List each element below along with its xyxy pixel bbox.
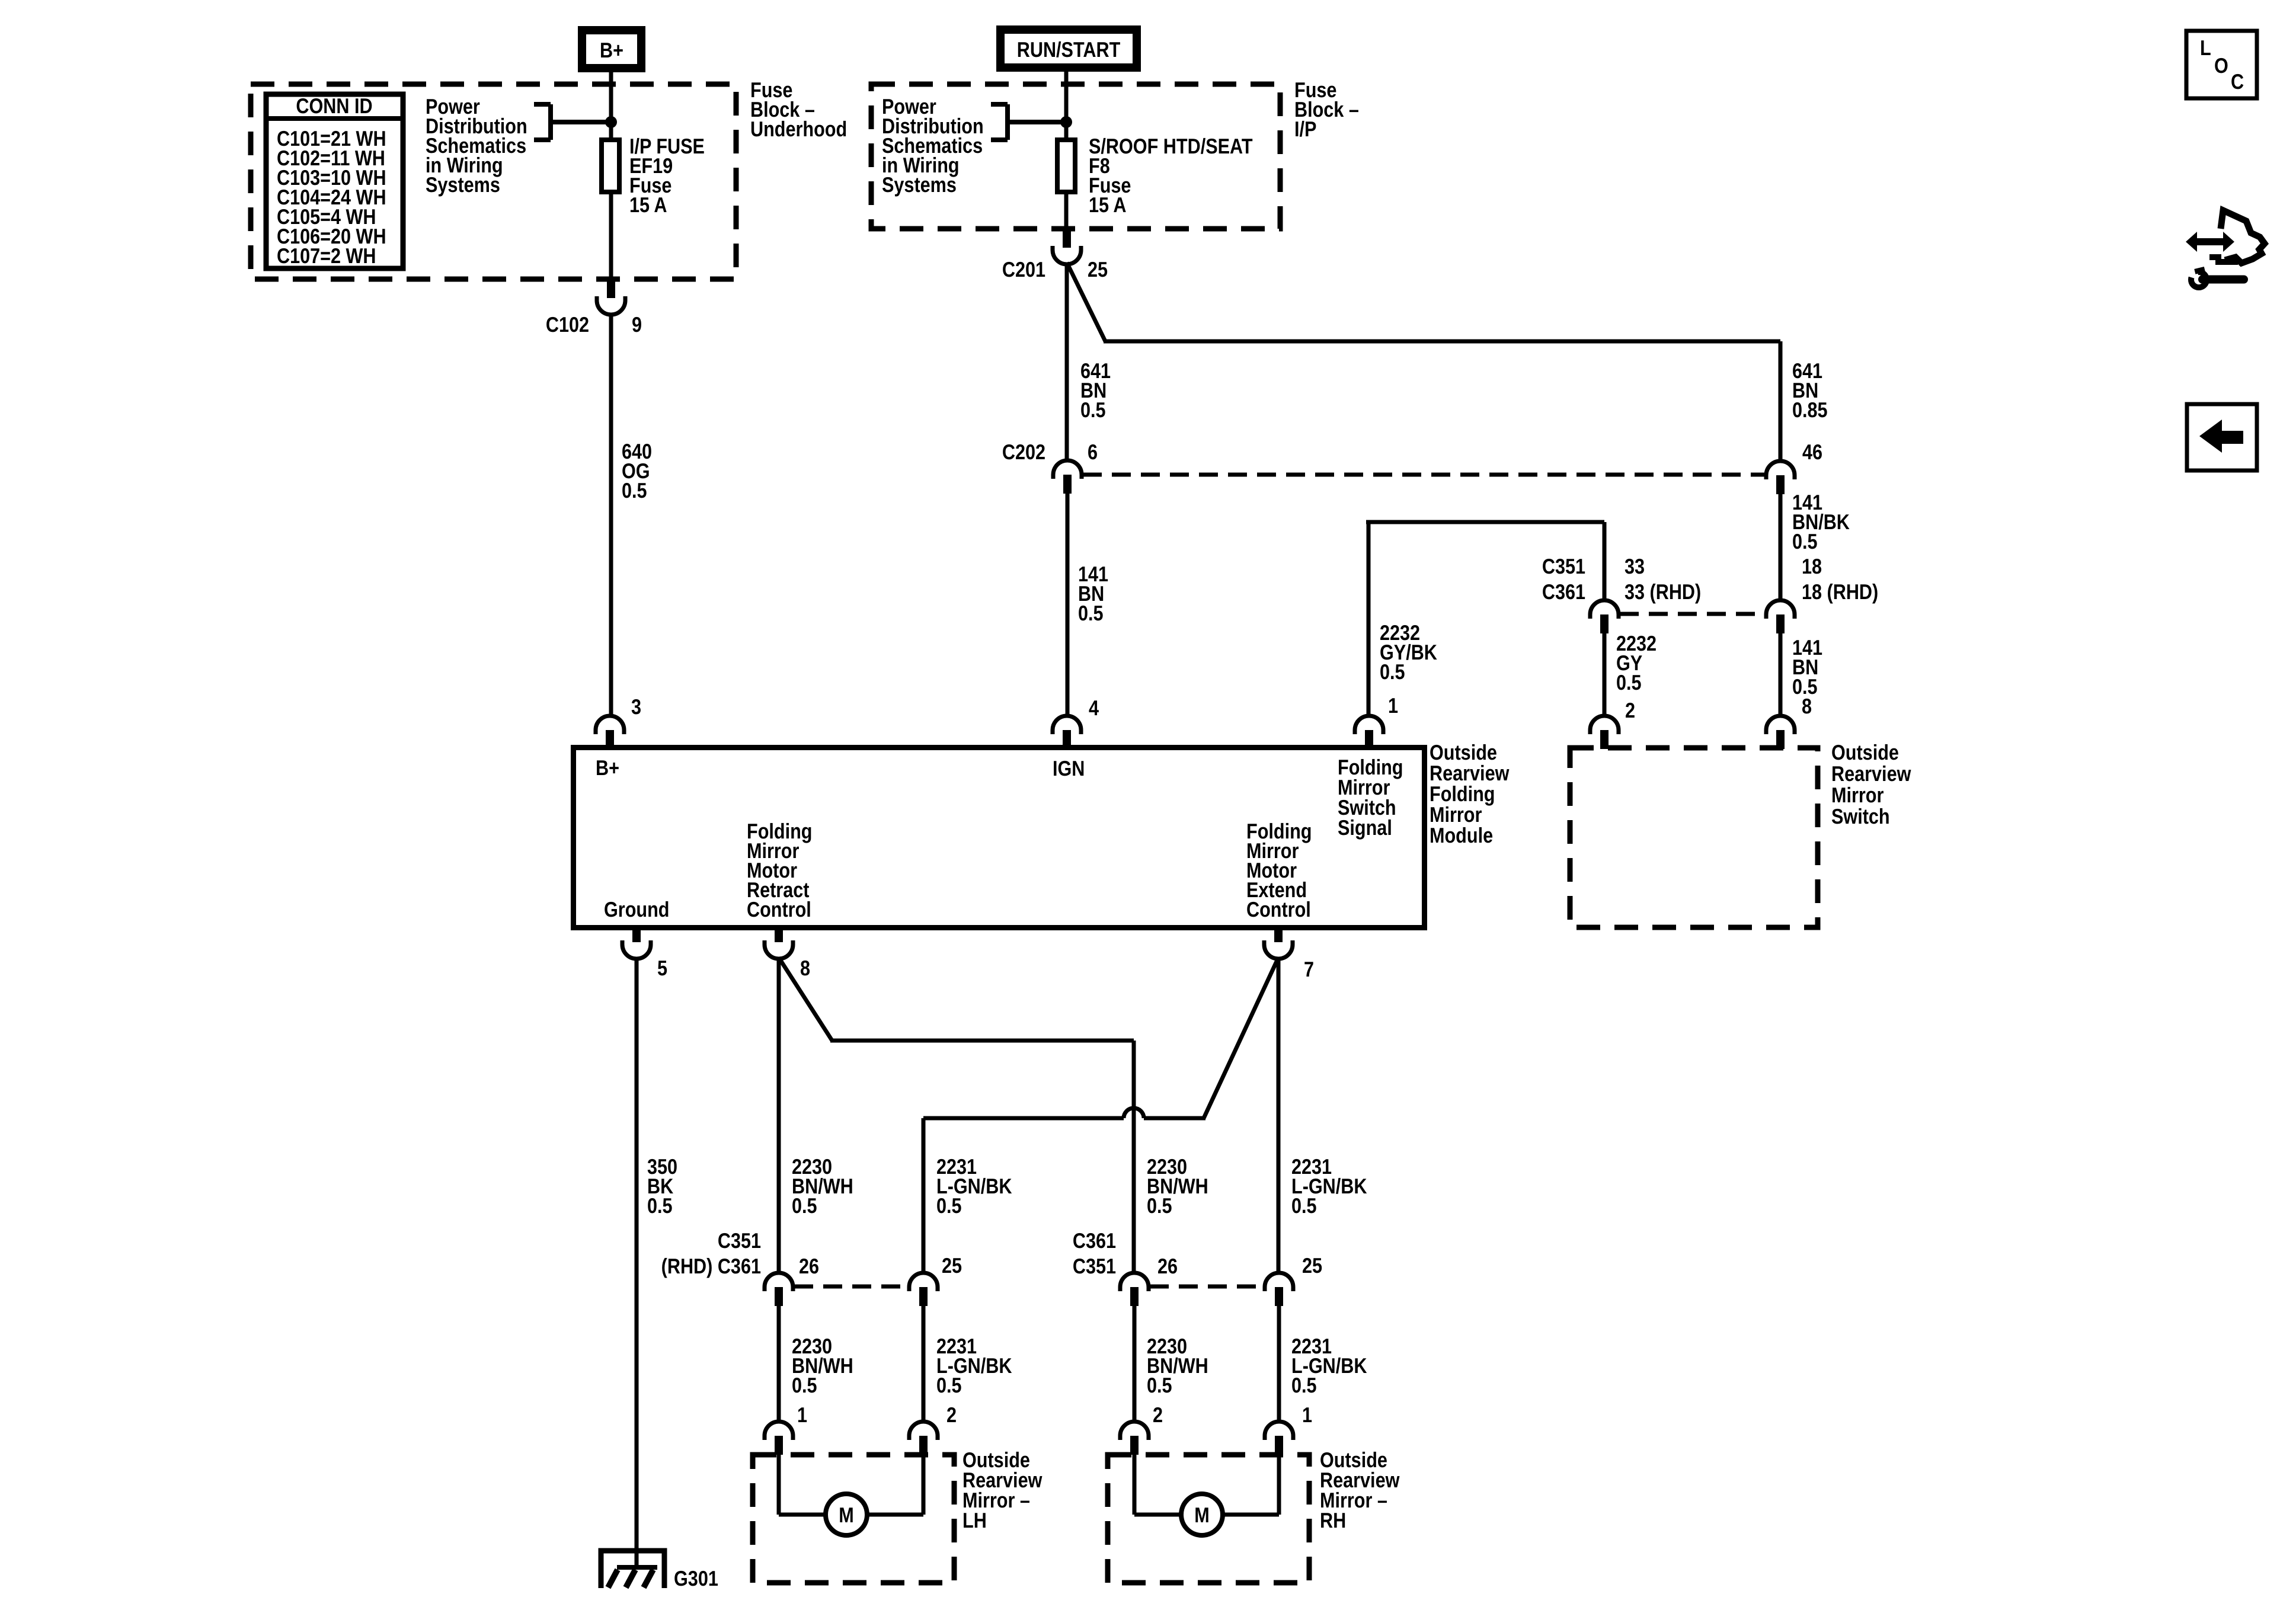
svg-text:C107=2 WH: C107=2 WH [277, 244, 376, 268]
svg-text:B+: B+ [596, 756, 619, 780]
svg-text:0.5: 0.5 [792, 1373, 817, 1397]
svg-text:0.5: 0.5 [1291, 1193, 1317, 1218]
svg-text:M: M [1194, 1503, 1210, 1527]
svg-text:Switch: Switch [1831, 804, 1890, 828]
svg-text:5: 5 [657, 956, 667, 980]
svg-text:18: 18 [1802, 554, 1822, 578]
svg-text:25: 25 [1302, 1253, 1322, 1278]
svg-text:15 A: 15 A [1089, 193, 1127, 217]
svg-text:18 (RHD): 18 (RHD) [1802, 580, 1878, 604]
svg-text:CONN ID: CONN ID [296, 94, 372, 118]
svg-text:Systems: Systems [426, 172, 500, 197]
svg-text:25: 25 [1088, 257, 1108, 281]
svg-text:2: 2 [946, 1403, 957, 1427]
svg-text:1: 1 [1388, 693, 1398, 718]
svg-text:M: M [839, 1503, 854, 1527]
svg-text:33 (RHD): 33 (RHD) [1625, 580, 1701, 604]
svg-text:Underhood: Underhood [750, 117, 847, 141]
svg-text:(RHD) C361: (RHD) C361 [661, 1254, 761, 1278]
svg-text:C102: C102 [546, 312, 589, 337]
svg-text:33: 33 [1625, 554, 1645, 578]
svg-text:C202: C202 [1002, 440, 1045, 464]
svg-text:1: 1 [1302, 1403, 1312, 1427]
svg-text:C351: C351 [718, 1228, 761, 1253]
svg-text:0.5: 0.5 [1792, 529, 1818, 553]
svg-text:C201: C201 [1002, 257, 1045, 281]
svg-text:Outside: Outside [1831, 740, 1899, 764]
svg-text:Mirror: Mirror [1831, 783, 1884, 807]
svg-text:15 A: 15 A [629, 193, 667, 217]
svg-text:0.5: 0.5 [792, 1193, 817, 1218]
svg-text:6: 6 [1088, 440, 1098, 464]
svg-text:I/P: I/P [1294, 117, 1316, 141]
svg-text:0.5: 0.5 [1616, 670, 1642, 694]
svg-text:0.5: 0.5 [1380, 660, 1405, 684]
svg-text:C351: C351 [1542, 554, 1585, 578]
svg-text:25: 25 [942, 1253, 962, 1278]
svg-text:O: O [2214, 53, 2228, 78]
svg-text:4: 4 [1089, 696, 1099, 720]
svg-text:Control: Control [1246, 897, 1311, 921]
svg-text:0.5: 0.5 [936, 1193, 962, 1218]
svg-text:0.5: 0.5 [1080, 398, 1106, 422]
svg-text:0.5: 0.5 [622, 478, 647, 502]
svg-text:8: 8 [800, 956, 810, 980]
svg-text:C: C [2231, 69, 2244, 94]
svg-text:C361: C361 [1073, 1228, 1116, 1253]
svg-text:1: 1 [797, 1403, 807, 1427]
svg-text:0.5: 0.5 [1147, 1193, 1172, 1218]
svg-text:0.5: 0.5 [936, 1373, 962, 1397]
svg-text:Control: Control [747, 897, 811, 921]
svg-text:B+: B+ [600, 38, 623, 62]
svg-text:Ground: Ground [604, 897, 669, 921]
svg-text:LH: LH [962, 1508, 987, 1532]
svg-text:RH: RH [1320, 1508, 1346, 1532]
svg-text:0.5: 0.5 [1291, 1373, 1317, 1397]
svg-text:9: 9 [632, 312, 642, 337]
svg-text:0.85: 0.85 [1792, 398, 1828, 422]
svg-text:S/ROOF HTD/SEAT: S/ROOF HTD/SEAT [1089, 134, 1253, 158]
svg-text:26: 26 [1157, 1254, 1178, 1278]
svg-text:C361: C361 [1542, 580, 1585, 604]
svg-text:Systems: Systems [882, 172, 957, 197]
svg-text:Module: Module [1430, 823, 1493, 847]
svg-text:26: 26 [799, 1254, 819, 1278]
svg-text:0.5: 0.5 [1147, 1373, 1172, 1397]
svg-text:8: 8 [1802, 694, 1812, 718]
svg-text:Rearview: Rearview [1831, 761, 1911, 786]
svg-text:7: 7 [1304, 957, 1314, 981]
svg-text:2: 2 [1625, 698, 1635, 722]
svg-text:C351: C351 [1073, 1254, 1116, 1278]
svg-text:G301: G301 [674, 1566, 718, 1590]
svg-text:Signal: Signal [1338, 815, 1392, 840]
svg-text:0.5: 0.5 [647, 1193, 673, 1218]
svg-text:IGN: IGN [1053, 756, 1085, 780]
svg-text:L: L [2200, 36, 2211, 60]
svg-text:RUN/START: RUN/START [1017, 37, 1121, 62]
svg-text:0.5: 0.5 [1078, 601, 1104, 625]
svg-text:2: 2 [1153, 1403, 1163, 1427]
svg-text:46: 46 [1802, 440, 1822, 464]
svg-text:3: 3 [631, 694, 641, 719]
